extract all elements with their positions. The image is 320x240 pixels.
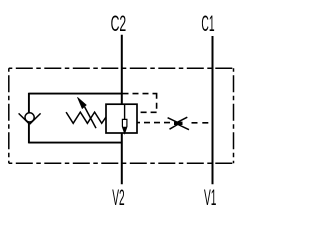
svg-text:C1: C1 xyxy=(201,11,214,36)
svg-text:C2: C2 xyxy=(111,11,127,36)
svg-text:V2: V2 xyxy=(112,185,124,210)
svg-text:V1: V1 xyxy=(204,185,216,210)
